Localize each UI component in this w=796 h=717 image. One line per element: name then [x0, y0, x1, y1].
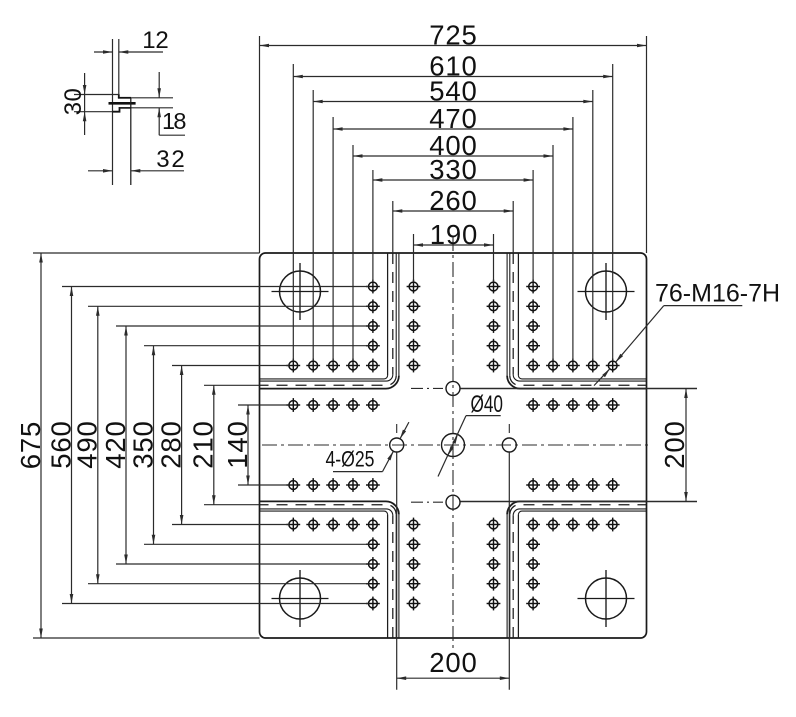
dimension 540 (top chain) — [313, 101, 593, 103]
T-slot profile surface extension right — [131, 97, 173, 99]
dimension 675 (left chain) — [40, 253, 42, 638]
clamping pad boundary bottom-left — [398, 514, 400, 638]
platen plate outline — [260, 253, 647, 638]
dimension 470 (top chain) — [333, 128, 573, 130]
dimension 420 (left chain) — [125, 326, 127, 564]
dimension 18 (step depth) — [158, 72, 160, 98]
Ø25 hole top — [446, 381, 460, 395]
extension lines for left dimension chain — [33, 253, 369, 638]
svg-text:4-Ø25: 4-Ø25 — [326, 447, 375, 472]
svg-text:490: 490 — [72, 421, 103, 469]
detail view extension line A (left slot wall) — [112, 39, 114, 185]
M16 holes top-left quadrant — [286, 280, 420, 412]
T-slot profile 18-level extension right — [120, 107, 174, 109]
svg-text:350: 350 — [127, 421, 158, 469]
dimension 200 (right) — [685, 389, 687, 502]
T-slot profile lower step — [113, 108, 131, 112]
dimension 12 (slot width) — [94, 51, 113, 53]
extension lines for right 200 dimension (through Ø25 holes) — [461, 388, 698, 390]
extension lines for bottom 200 dimension — [396, 452, 398, 689]
bottom Ø25 hole horizontal center line — [411, 501, 443, 503]
dimension 260 (top chain) — [393, 210, 513, 212]
svg-text:30: 30 — [60, 88, 87, 115]
dimension 280 (left chain) — [181, 366, 183, 525]
svg-text:200: 200 — [429, 647, 477, 678]
M16 holes bottom-left quadrant — [286, 478, 420, 610]
Ø25 hole left — [390, 438, 404, 452]
detail view extension line B (right slot wall) — [118, 39, 120, 95]
dimension 30 (slot depth) — [74, 94, 119, 96]
detail view extension line C (wide slot wall) — [130, 98, 132, 185]
svg-text:18: 18 — [162, 108, 187, 134]
corner tie-bar hole bottom-right — [586, 578, 627, 619]
label 4-Ø25 with leader — [333, 471, 383, 473]
svg-text:420: 420 — [100, 421, 131, 469]
dimension 400 (top chain) — [353, 155, 553, 157]
left Ø25 hole vertical center line — [396, 424, 398, 437]
svg-text:32: 32 — [156, 146, 185, 173]
label 76-M16-7H with leader — [664, 305, 743, 307]
svg-text:260: 260 — [429, 185, 477, 216]
svg-text:540: 540 — [429, 75, 477, 106]
dimension 490 (left chain) — [97, 306, 99, 583]
clamping pad boundary top-right — [506, 253, 508, 376]
M16 holes top-right quadrant — [487, 280, 620, 412]
svg-text:76-M16-7H: 76-M16-7H — [655, 280, 780, 308]
extension lines for top dimension chain — [260, 36, 647, 361]
corner tie-bar hole top-left — [280, 271, 321, 312]
dimension 350 (left chain) — [153, 346, 155, 545]
dimension 200 (bottom) — [397, 677, 510, 679]
clamping pad boundary bottom-right — [506, 514, 508, 638]
svg-text:330: 330 — [429, 154, 477, 185]
dimension 32 (wide slot width) — [88, 170, 113, 172]
M16 holes bottom-right quadrant — [487, 478, 620, 610]
vertical center line — [452, 236, 454, 652]
Ø25 hole right — [502, 438, 516, 452]
svg-text:Ø40: Ø40 — [471, 391, 504, 418]
dimension 140 (left chain) — [247, 405, 249, 485]
dimension 330 (top chain) — [373, 179, 533, 181]
corner tie-bar hole bottom-left — [280, 578, 321, 619]
svg-text:210: 210 — [188, 421, 219, 469]
dimension 560 (left chain) — [71, 287, 73, 604]
T-slot profile top surface line — [118, 94, 120, 98]
svg-text:675: 675 — [15, 422, 46, 470]
top Ø25 hole horizontal center line — [411, 387, 443, 389]
dimension 610 (top chain) — [293, 76, 612, 78]
svg-text:190: 190 — [430, 219, 478, 250]
clamping pad boundary top-left — [398, 253, 400, 376]
corner tie-bar hole top-right — [586, 271, 627, 312]
Ø25 hole bottom — [446, 495, 460, 509]
horizontal center line — [262, 444, 651, 446]
T-slot profile heavy bar — [109, 102, 136, 105]
svg-text:280: 280 — [155, 421, 186, 469]
svg-text:140: 140 — [222, 421, 253, 469]
locating hole Ø40 center — [442, 434, 465, 457]
dimension 190 (top chain) — [414, 244, 494, 246]
label Ø40 with leader — [438, 416, 466, 477]
svg-text:12: 12 — [142, 27, 169, 54]
dimension 210 (left chain) — [213, 385, 215, 504]
svg-text:200: 200 — [659, 421, 690, 469]
right Ø25 hole vertical center line — [508, 424, 510, 437]
dimension 725 (top chain) — [260, 45, 647, 47]
svg-text:725: 725 — [429, 19, 477, 50]
